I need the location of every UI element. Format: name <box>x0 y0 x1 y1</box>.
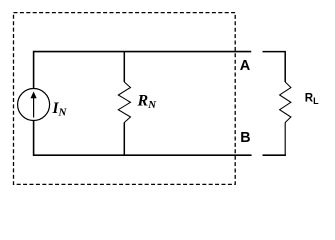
resistor RL (zigzag) <box>280 82 291 123</box>
wire RL branch bottom vertical (RL to corner) <box>284 123 286 156</box>
svg-text:RL: RL <box>305 92 319 106</box>
wire RN branch upper <box>123 52 125 82</box>
wire left-lower and bottom (current source to terminal B) <box>34 120 252 155</box>
current source IN arrow <box>31 92 37 118</box>
current source IN (circle) <box>18 89 50 121</box>
svg-text:IN: IN <box>52 100 68 119</box>
wire RL branch bottom horizontal (corner to terminal B) <box>263 154 286 156</box>
resistor RN (zigzag) <box>118 82 130 123</box>
wire RN branch lower <box>123 123 125 156</box>
wire RL branch top (terminal A to RL) <box>263 52 286 82</box>
svg-text:B: B <box>240 130 250 146</box>
svg-text:RN: RN <box>137 92 158 111</box>
wire left-upper and top (current source to terminal A) <box>34 52 252 89</box>
Norton source dashed boundary box <box>14 13 236 185</box>
svg-text:A: A <box>240 58 251 74</box>
